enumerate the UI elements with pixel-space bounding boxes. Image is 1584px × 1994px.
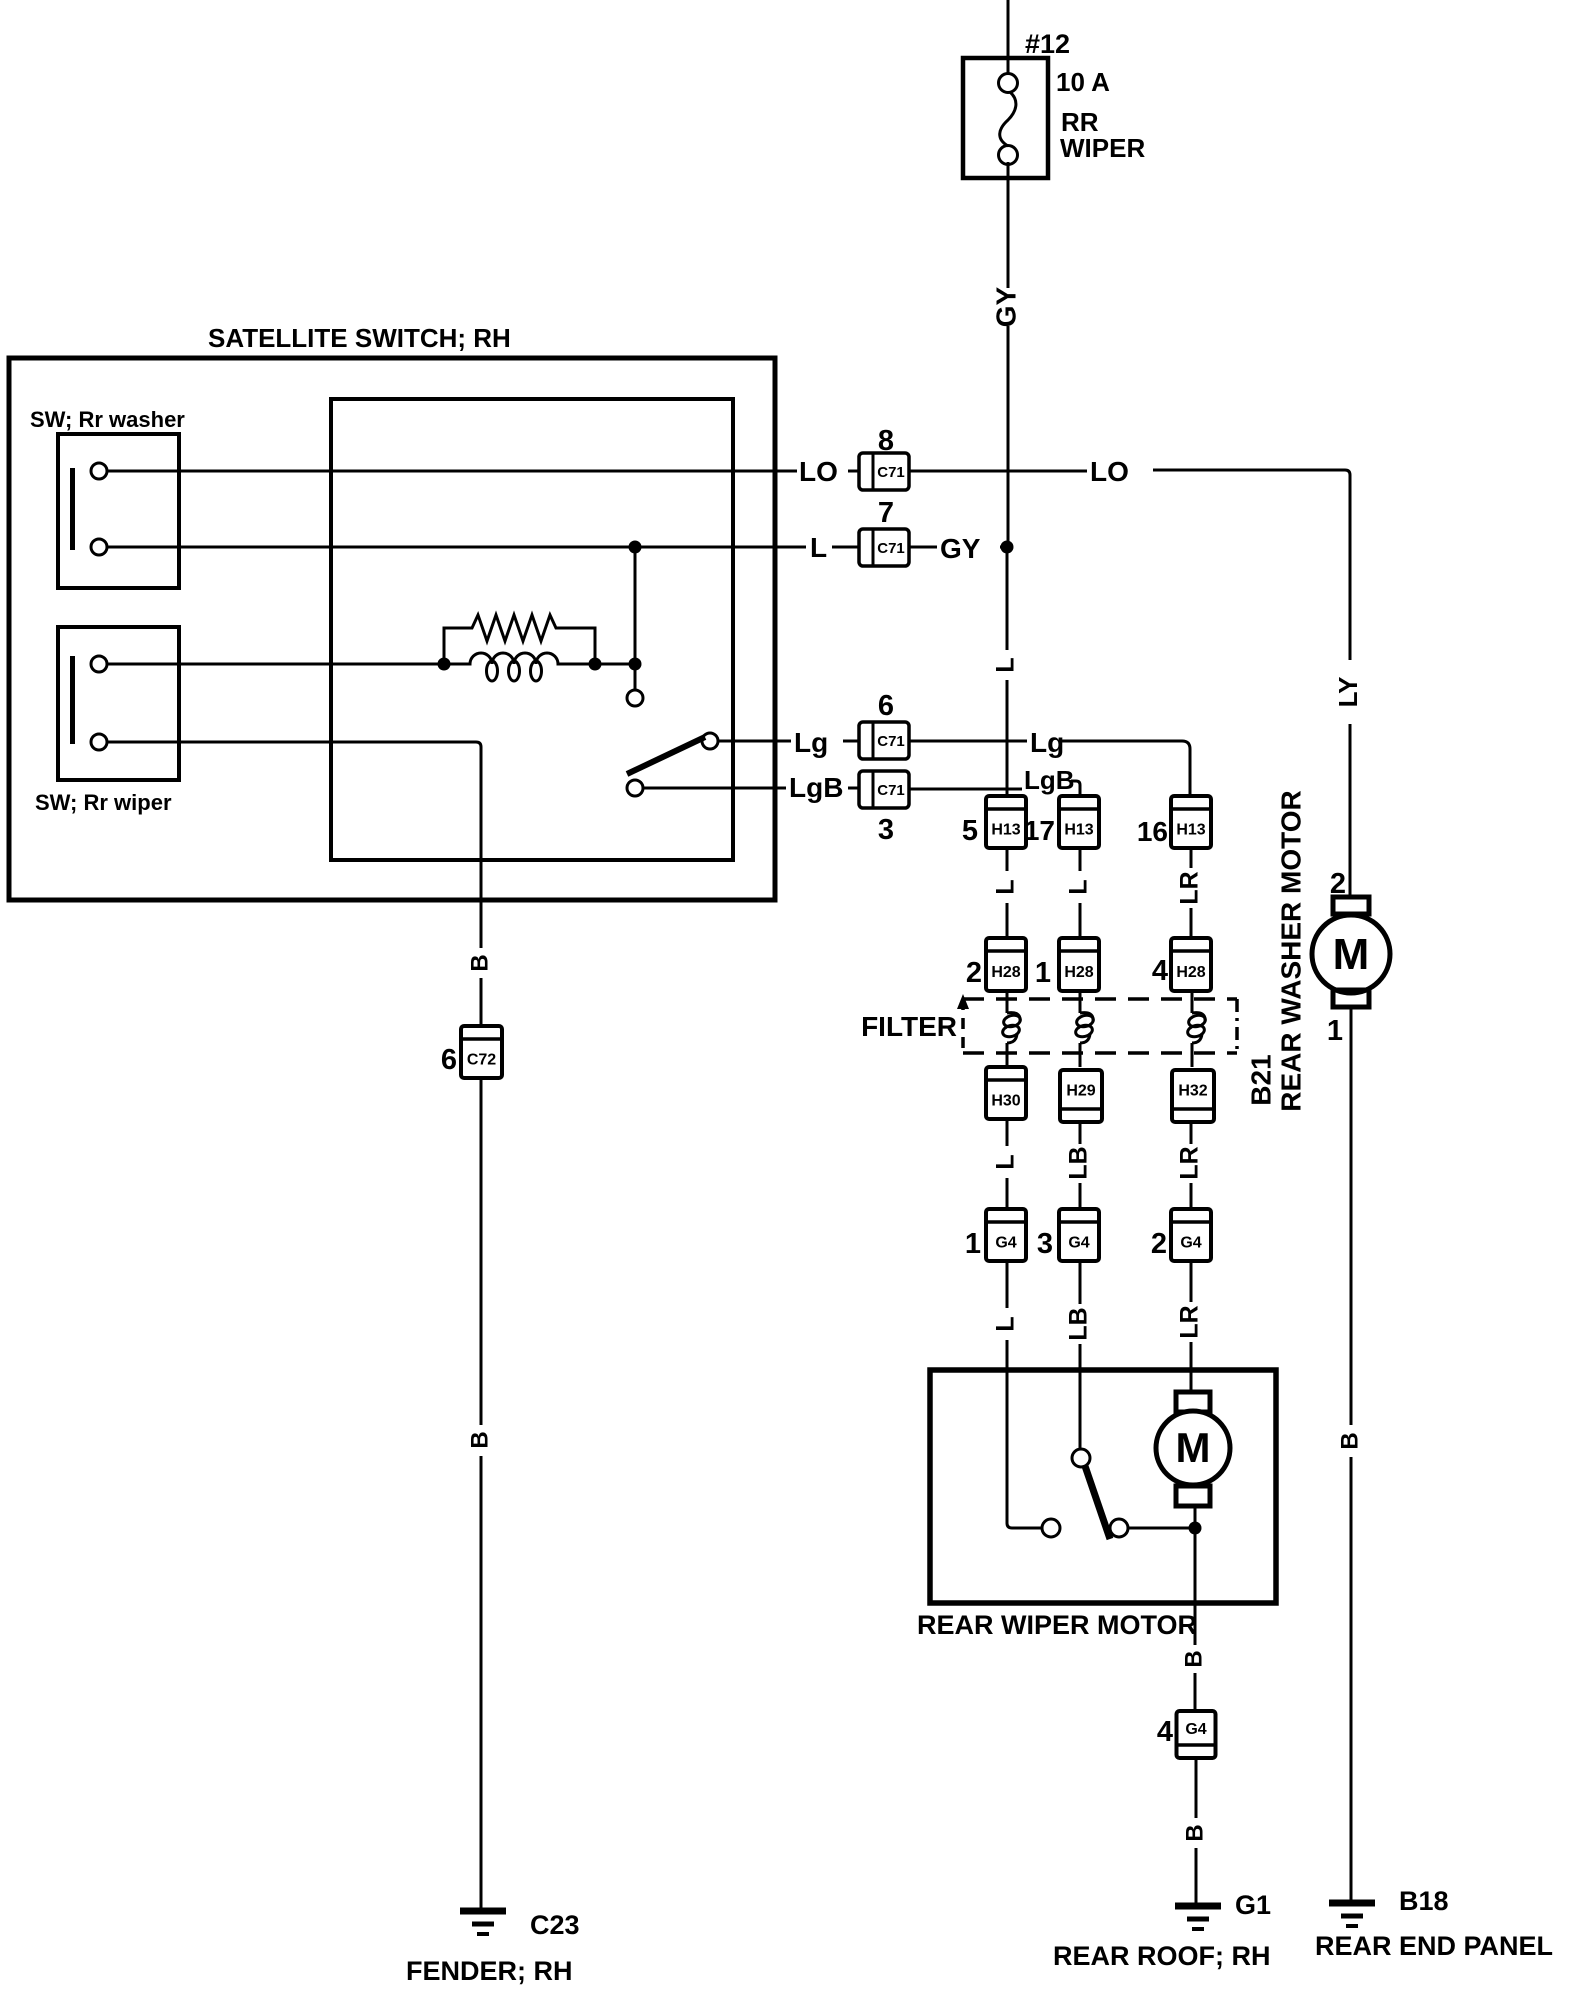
connector C71 pin 8 — [859, 453, 909, 490]
svg-text:H28: H28 — [991, 964, 1020, 981]
svg-text:G4: G4 — [1068, 1235, 1089, 1252]
wiper run contact — [1110, 1519, 1128, 1537]
wire Lg from switch — [718, 740, 791, 743]
connector C71 pin 6 — [859, 722, 909, 759]
switch lever — [627, 737, 705, 774]
filter coil at x=1191 — [1191, 991, 1194, 1013]
wire to right tap — [595, 663, 635, 666]
wire washer top contact to LO — [107, 470, 797, 473]
connector H28 pin 1 — [1059, 938, 1099, 991]
svg-text:6: 6 — [441, 1044, 457, 1076]
wire B from wiper bottom contact — [107, 742, 481, 948]
wire contact to motor — [1128, 1527, 1195, 1530]
svg-text:SW; Rr washer: SW; Rr washer — [30, 407, 185, 432]
svg-text:16: 16 — [1137, 816, 1168, 847]
svg-text:2: 2 — [1151, 1228, 1167, 1260]
connector H29 — [1060, 1070, 1102, 1122]
svg-text:FENDER; RH: FENDER; RH — [406, 1956, 573, 1986]
svg-text:H28: H28 — [1176, 964, 1205, 981]
svg-text:C23: C23 — [530, 1910, 580, 1940]
svg-text:H32: H32 — [1178, 1083, 1207, 1100]
wire B to ground — [480, 1078, 483, 1425]
connector H28 pin 4 — [1171, 938, 1211, 991]
connector H30 — [986, 1067, 1026, 1119]
wire LgB to H13 — [909, 788, 1022, 791]
wire LR below H13-16 — [1190, 848, 1193, 868]
wire LB below G4-3 — [1079, 1261, 1082, 1304]
svg-text:LR: LR — [1176, 871, 1204, 904]
filter coil at x=1079 — [1079, 991, 1082, 1013]
svg-text:WIPER: WIPER — [1060, 133, 1145, 163]
svg-text:H28: H28 — [1064, 964, 1093, 981]
svg-text:8: 8 — [878, 425, 894, 457]
svg-text:3: 3 — [878, 814, 894, 846]
wire battery feed to fuse — [1007, 0, 1010, 75]
connector H13 pin 17 — [1059, 796, 1099, 848]
svg-text:C71: C71 — [877, 464, 905, 481]
connector C72 pin 6 — [461, 1026, 502, 1078]
svg-text:G4: G4 — [995, 1235, 1016, 1252]
svg-text:6: 6 — [878, 690, 894, 722]
svg-text:L: L — [1065, 879, 1093, 894]
node parallel right — [589, 658, 602, 671]
svg-text:L: L — [992, 879, 1020, 894]
connector C71 pin 3 — [859, 771, 909, 808]
svg-text:REAR END PANEL: REAR END PANEL — [1315, 1931, 1553, 1961]
wire tap down to contact circle — [634, 664, 637, 690]
wire L below H30 — [1006, 1119, 1009, 1146]
wiper switch lever — [1085, 1466, 1110, 1539]
svg-text:4: 4 — [1157, 1716, 1173, 1748]
svg-text:REAR WASHER MOTOR: REAR WASHER MOTOR — [1275, 790, 1306, 1112]
wire L below H13-17 — [1079, 848, 1082, 871]
svg-text:LO: LO — [1090, 456, 1129, 487]
wire LB below H29 — [1079, 1122, 1082, 1144]
svg-text:C71: C71 — [877, 540, 905, 557]
svg-text:1: 1 — [1035, 957, 1051, 989]
svg-text:LB: LB — [1065, 1307, 1093, 1340]
svg-text:L: L — [992, 1154, 1020, 1169]
svg-text:B: B — [1181, 1824, 1208, 1841]
filter coil at x=1006 — [1006, 991, 1009, 1013]
connector G4 pin 2 — [1171, 1209, 1211, 1261]
svg-text:B: B — [466, 1431, 493, 1448]
svg-text:L: L — [992, 657, 1020, 672]
wire wiper top contact to parallel circuit — [107, 663, 444, 666]
wire GY from fuse — [1007, 162, 1010, 288]
svg-text:2: 2 — [966, 957, 982, 989]
connector H32 — [1172, 1070, 1214, 1122]
inductor coil (bottom branch) — [444, 653, 595, 664]
svg-text:1: 1 — [965, 1228, 981, 1260]
filter dashed box — [963, 997, 1237, 1001]
svg-text:B: B — [1180, 1650, 1207, 1667]
svg-text:G4: G4 — [1180, 1235, 1201, 1252]
fuse #12 10A RR WIPER — [963, 58, 1048, 178]
svg-text:LO: LO — [799, 456, 838, 487]
contact circle below junction — [627, 690, 643, 706]
connector G4 pin 1 — [986, 1209, 1026, 1261]
node parallel circuit right tap — [629, 658, 642, 671]
wire L below H13-5 — [1006, 848, 1009, 871]
svg-text:G4: G4 — [1185, 1721, 1206, 1738]
wire LgB from switch — [644, 787, 786, 790]
svg-text:B: B — [466, 954, 493, 971]
wire LR below G4-2 — [1190, 1261, 1193, 1302]
svg-text:L: L — [810, 532, 827, 563]
motor M rear wiper — [1190, 1370, 1193, 1392]
svg-text:10 A: 10 A — [1056, 67, 1110, 97]
svg-text:LR: LR — [1176, 1305, 1204, 1338]
svg-text:G1: G1 — [1235, 1890, 1271, 1920]
svg-text:H29: H29 — [1066, 1083, 1095, 1100]
svg-text:FILTER: FILTER — [861, 1011, 957, 1042]
wire LO to rear washer motor — [909, 470, 1087, 473]
svg-text:M: M — [1176, 1424, 1211, 1471]
ground B18 — [1329, 1900, 1375, 1907]
connector H13 pin 5 — [986, 796, 1026, 848]
node wiper motor junction — [1189, 1522, 1202, 1535]
wire B from washer motor to ground — [1350, 1007, 1353, 1425]
svg-text:LR: LR — [1176, 1146, 1204, 1179]
resistor (top branch) — [444, 615, 595, 664]
svg-text:Lg: Lg — [1030, 727, 1064, 758]
wire L below G4-1 — [1006, 1261, 1009, 1308]
SW; Rr washer — [58, 434, 179, 588]
svg-text:1: 1 — [1327, 1015, 1343, 1047]
wire junction down to contact — [634, 547, 637, 664]
svg-text:B21: B21 — [1245, 1054, 1276, 1105]
connector G4 pin 4 — [1177, 1711, 1216, 1758]
wire GY to junction — [909, 546, 937, 549]
wire B below wiper motor — [1194, 1603, 1197, 1645]
ground C23 — [460, 1908, 506, 1915]
svg-text:SW; Rr wiper: SW; Rr wiper — [35, 790, 172, 815]
wire L inside wiper motor — [1007, 1370, 1042, 1528]
connector G4 pin 3 — [1059, 1209, 1099, 1261]
wiper switch pivot contact (to LgB) — [627, 780, 643, 796]
wire washer bottom contact to L — [107, 546, 806, 549]
svg-text:3: 3 — [1037, 1228, 1053, 1260]
svg-text:LY: LY — [1333, 677, 1363, 708]
ground G1 — [1175, 1903, 1221, 1910]
svg-text:GY: GY — [990, 286, 1021, 327]
svg-text:5: 5 — [962, 815, 978, 847]
svg-text:C71: C71 — [877, 733, 905, 750]
wiper switch pivot — [1072, 1449, 1090, 1467]
svg-text:REAR ROOF; RH: REAR ROOF; RH — [1053, 1941, 1271, 1971]
wire LR below H32 — [1190, 1122, 1193, 1144]
wire motor to junction and out — [1194, 1506, 1197, 1603]
svg-text:C72: C72 — [467, 1052, 496, 1069]
svg-text:M: M — [1333, 930, 1370, 979]
node L wire junction — [629, 541, 642, 554]
svg-text:4: 4 — [1152, 955, 1168, 987]
svg-text:LB: LB — [1065, 1146, 1093, 1179]
wire Lg to H13 — [909, 740, 1027, 743]
svg-text:Lg: Lg — [794, 727, 828, 758]
svg-text:C71: C71 — [877, 782, 905, 799]
satellite switch inner box — [331, 399, 733, 860]
connector H28 pin 2 — [986, 938, 1026, 991]
svg-text:LgB: LgB — [789, 772, 843, 803]
wire L below junction — [1006, 553, 1009, 650]
svg-text:LgB: LgB — [1024, 765, 1075, 795]
svg-text:L: L — [992, 1316, 1020, 1331]
svg-text:H30: H30 — [991, 1093, 1020, 1110]
rear wiper motor box — [930, 1370, 1276, 1603]
svg-text:H13: H13 — [1064, 822, 1093, 839]
svg-text:GY: GY — [940, 533, 981, 564]
svg-text:SATELLITE SWITCH; RH: SATELLITE SWITCH; RH — [208, 323, 511, 353]
connector C71 pin 7 — [859, 529, 909, 566]
svg-text:REAR WIPER MOTOR: REAR WIPER MOTOR — [917, 1610, 1197, 1640]
svg-text:B: B — [1336, 1432, 1363, 1449]
svg-text:H13: H13 — [991, 822, 1020, 839]
svg-text:B18: B18 — [1399, 1886, 1449, 1916]
SW; Rr wiper — [58, 627, 179, 780]
svg-text:H13: H13 — [1176, 822, 1205, 839]
svg-text:7: 7 — [878, 497, 894, 529]
wiper switch lever contact (to Lg) — [702, 733, 718, 749]
svg-text:#12: #12 — [1025, 29, 1070, 59]
wire LB inside wiper motor — [1079, 1370, 1082, 1449]
node parallel left — [438, 658, 451, 671]
wiper park contact — [1042, 1519, 1060, 1537]
connector H13 pin 16 — [1171, 796, 1211, 848]
node GY junction — [1001, 541, 1014, 554]
satellite switch RH outer box — [9, 358, 775, 900]
svg-text:17: 17 — [1024, 815, 1055, 846]
